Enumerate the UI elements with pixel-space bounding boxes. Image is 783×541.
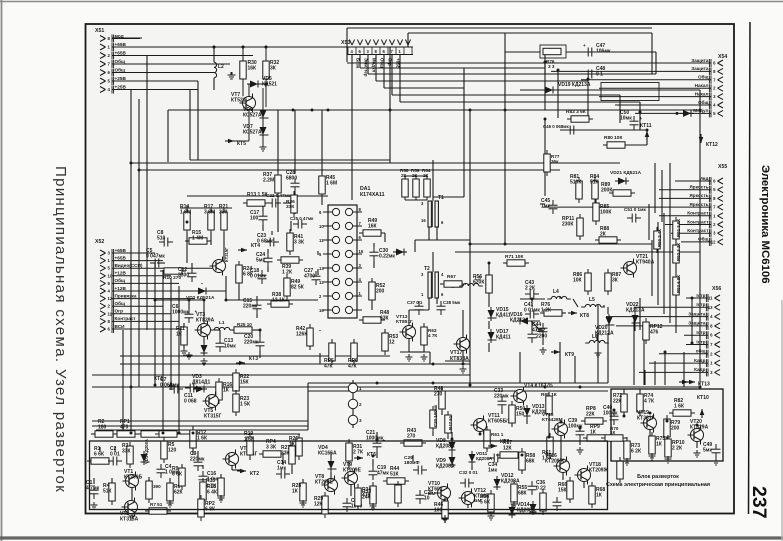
svg-text:Х55: Х55 xyxy=(718,164,727,170)
svg-text:82 5К: 82 5К xyxy=(291,285,305,291)
svg-text:КТ11: КТ11 xyxy=(640,123,652,129)
svg-text:Общ: Общ xyxy=(115,300,126,306)
svg-text:1К: 1К xyxy=(656,442,663,448)
svg-text:Защита: Защита xyxy=(691,66,709,71)
svg-text:220мк: 220мк xyxy=(244,340,259,346)
svg-text:КТ361Г: КТ361Г xyxy=(637,416,655,422)
svg-text:270: 270 xyxy=(407,434,416,440)
svg-text:4700: 4700 xyxy=(304,274,315,280)
svg-text:1К: 1К xyxy=(292,489,299,495)
svg-text:1 6М: 1 6М xyxy=(326,181,337,187)
svg-text:КТ209Б: КТ209Б xyxy=(124,475,143,481)
svg-text:200: 200 xyxy=(671,426,680,432)
svg-text:10К: 10К xyxy=(573,278,583,284)
svg-text:Блок разверток: Блок разверток xyxy=(637,474,679,480)
svg-text:6800: 6800 xyxy=(286,176,297,182)
svg-text:15К: 15К xyxy=(558,488,568,494)
svg-text:33К: 33К xyxy=(122,449,132,455)
svg-text:5мк: 5мк xyxy=(703,448,712,454)
svg-text:R92 3 3К: R92 3 3К xyxy=(676,243,681,261)
svg-text:1мк: 1мк xyxy=(541,204,550,210)
svg-text:22К: 22К xyxy=(586,412,596,418)
svg-text:15К: 15К xyxy=(240,380,250,386)
svg-text:КД208А: КД208А xyxy=(501,479,520,485)
svg-text:VD1 КД208А: VD1 КД208А xyxy=(144,439,149,464)
svg-text:КТ5: КТ5 xyxy=(237,141,246,147)
svg-text:150: 150 xyxy=(516,412,525,418)
svg-text:L1: L1 xyxy=(219,320,225,326)
svg-text:5мк: 5мк xyxy=(256,258,265,264)
svg-text:R67: R67 xyxy=(447,274,456,280)
svg-text:3 6М: 3 6М xyxy=(204,210,215,216)
svg-text:Т1: Т1 xyxy=(438,195,444,201)
svg-text:3: 3 xyxy=(359,418,362,423)
svg-text:Инд: Инд xyxy=(699,176,708,181)
svg-text:КТ209Е: КТ209Е xyxy=(315,480,334,486)
svg-text:R80 10К: R80 10К xyxy=(604,135,622,141)
svg-text:КД411: КД411 xyxy=(496,335,511,341)
svg-text:47мк: 47мк xyxy=(377,471,389,477)
svg-text:+12В: +12В xyxy=(115,286,127,291)
svg-text:12К: 12К xyxy=(503,446,513,452)
svg-text:1К: 1К xyxy=(596,493,603,499)
svg-text:ВСИ: ВСИ xyxy=(115,324,126,329)
svg-text:220мк: 220мк xyxy=(190,457,205,463)
svg-text:Общ: Общ xyxy=(115,66,126,72)
svg-text:+65В: +65В xyxy=(115,255,127,260)
svg-text:КД411: КД411 xyxy=(496,313,511,319)
svg-text:200К: 200К xyxy=(601,188,613,194)
svg-text:33К: 33К xyxy=(219,210,229,216)
svg-text:С38 5мк: С38 5мк xyxy=(443,300,461,305)
svg-text:6 6К: 6 6К xyxy=(172,472,183,478)
svg-text:С20 100мк: С20 100мк xyxy=(433,404,438,427)
svg-text:+65В: +65В xyxy=(115,248,127,253)
svg-text:КД208А: КД208А xyxy=(436,444,455,450)
svg-text:12: 12 xyxy=(711,239,716,244)
svg-text:С32 0 01: С32 0 01 xyxy=(459,470,478,475)
svg-text:22К: 22К xyxy=(613,399,623,405)
svg-text:47К: 47К xyxy=(324,364,334,370)
svg-text:12 1К: 12 1К xyxy=(272,298,286,304)
svg-text:R25 10: R25 10 xyxy=(237,322,252,327)
svg-text:КТ829А: КТ829А xyxy=(690,425,709,431)
svg-text:КД213А: КД213А xyxy=(626,308,645,314)
svg-text:3 3К: 3 3К xyxy=(294,240,305,246)
svg-text:0.22мк: 0.22мк xyxy=(379,254,395,260)
svg-text:Iстр: Iстр xyxy=(696,339,705,344)
svg-text:Х53: Х53 xyxy=(341,40,350,46)
svg-text:2.2М: 2.2М xyxy=(263,178,274,184)
svg-text:33К: 33К xyxy=(281,451,291,457)
svg-text:+25В: +25В xyxy=(115,84,127,89)
svg-text:5 6К: 5 6К xyxy=(480,500,491,506)
svg-text:100: 100 xyxy=(250,216,259,222)
svg-text:13: 13 xyxy=(708,305,713,310)
svg-text:+65В: +65В xyxy=(115,42,127,47)
svg-text:180мФ: 180мФ xyxy=(404,460,420,466)
svg-text:68К: 68К xyxy=(526,459,536,465)
svg-text:+65В: +65В xyxy=(115,50,127,55)
svg-text:Накал: Накал xyxy=(695,91,709,96)
svg-text:Х56: Х56 xyxy=(712,286,721,292)
svg-text:390: 390 xyxy=(153,484,161,489)
svg-text:33К: 33К xyxy=(286,204,294,210)
svg-text:16К: 16К xyxy=(368,224,378,230)
svg-text:3 3К: 3 3К xyxy=(266,445,277,451)
svg-text:Защита: Защита xyxy=(688,311,706,316)
svg-text:КТ3: КТ3 xyxy=(249,356,258,362)
svg-text:100К: 100К xyxy=(600,210,612,216)
svg-text:100мк: 100мк xyxy=(603,411,618,417)
svg-text:Яркость: Яркость xyxy=(689,193,708,198)
svg-text:R71 10К: R71 10К xyxy=(505,254,523,260)
svg-text:6 2К: 6 2К xyxy=(631,449,642,455)
svg-text:11: 11 xyxy=(708,296,713,301)
svg-text:R61 1: R61 1 xyxy=(491,432,504,437)
svg-text:КТ209Ж: КТ209Ж xyxy=(589,468,609,474)
svg-text:0 1: 0 1 xyxy=(596,72,603,78)
svg-text:220мк: 220мк xyxy=(243,304,258,310)
svg-text:1 6М: 1 6М xyxy=(180,210,191,216)
svg-text:VD21 КД521А: VD21 КД521А xyxy=(610,170,642,176)
svg-text:Х52: Х52 xyxy=(95,239,104,245)
svg-text:3300: 3300 xyxy=(178,273,189,279)
svg-text:68К: 68К xyxy=(518,491,528,497)
svg-text:1 4М: 1 4М xyxy=(192,236,203,242)
svg-text:12К: 12К xyxy=(314,502,324,508)
svg-text:КТ315А: КТ315А xyxy=(120,517,139,523)
svg-text:10мк: 10мк xyxy=(224,344,236,350)
svg-text:Электроника МС6106: Электроника МС6106 xyxy=(759,165,771,284)
svg-text:1000мк: 1000мк xyxy=(172,310,190,316)
svg-text:10мк: 10мк xyxy=(620,116,632,122)
svg-text:Огр: Огр xyxy=(115,309,124,314)
svg-text:С37 0 1: С37 0 1 xyxy=(407,300,423,305)
svg-text:51К: 51К xyxy=(390,472,400,478)
svg-text:180: 180 xyxy=(98,425,107,431)
svg-text:2 7К: 2 7К xyxy=(353,450,364,456)
svg-text:Т2: Т2 xyxy=(424,266,430,272)
svg-text:Яркость: Яркость xyxy=(689,202,708,207)
svg-text:L2: L2 xyxy=(218,64,224,70)
svg-text:Д814Д1: Д814Д1 xyxy=(192,380,210,386)
svg-text:120: 120 xyxy=(168,448,177,454)
svg-text:КД212А: КД212А xyxy=(510,318,529,324)
svg-text:237: 237 xyxy=(748,486,770,519)
svg-text:Контраст: Контраст xyxy=(687,211,709,216)
svg-text:0 22: 0 22 xyxy=(536,486,546,492)
svg-text:С46 0 068мк: С46 0 068мк xyxy=(543,124,570,129)
svg-text:2200: 2200 xyxy=(536,334,547,340)
svg-text:КС527А: КС527А xyxy=(243,113,262,119)
svg-text:1 6К: 1 6К xyxy=(244,437,255,443)
svg-text:КТ209Е: КТ209Е xyxy=(343,468,362,474)
svg-text:L5: L5 xyxy=(589,297,595,303)
svg-text:0 047мк: 0 047мк xyxy=(146,254,165,260)
svg-text:+: + xyxy=(583,43,586,48)
svg-text:1К: 1К xyxy=(289,442,296,448)
svg-text:КД208А: КД208А xyxy=(436,464,455,470)
svg-text:3К: 3К xyxy=(612,278,619,284)
svg-text:24К: 24К xyxy=(362,495,372,501)
svg-text:2 2К: 2 2К xyxy=(672,446,683,452)
svg-text:0 01мк: 0 01мк xyxy=(524,308,540,314)
svg-text:R93 6 8К: R93 6 8К xyxy=(676,275,681,293)
svg-text:Контраст: Контраст xyxy=(115,316,137,321)
svg-text:КТ6: КТ6 xyxy=(367,452,376,458)
svg-text:11: 11 xyxy=(319,238,324,243)
svg-text:КТ1: КТ1 xyxy=(154,376,163,382)
svg-text:R7 51: R7 51 xyxy=(150,502,163,507)
svg-text:Защита: Защита xyxy=(691,58,709,63)
svg-text:КТ10: КТ10 xyxy=(697,395,709,401)
svg-text:510: 510 xyxy=(157,236,166,242)
svg-text:16К: 16К xyxy=(248,66,258,72)
svg-text:КТ209Ж: КТ209Ж xyxy=(545,459,565,465)
svg-text:3 3: 3 3 xyxy=(548,64,555,69)
svg-text:КТ9: КТ9 xyxy=(565,352,574,358)
svg-text:63К: 63К xyxy=(380,316,390,322)
svg-text:Iстр: Iстр xyxy=(696,293,705,298)
svg-text:10: 10 xyxy=(319,224,324,229)
svg-text:VD19 КД213А: VD19 КД213А xyxy=(558,82,591,88)
svg-text:6 6К: 6 6К xyxy=(94,452,105,458)
svg-text:VT4 КТ637Б: VT4 КТ637Б xyxy=(524,383,553,389)
svg-text:КС527А: КС527А xyxy=(243,130,262,136)
svg-text:1К: 1К xyxy=(176,332,183,338)
svg-text:1 6К: 1 6К xyxy=(674,404,685,410)
svg-text:Iстр: Iстр xyxy=(696,302,705,307)
svg-text:+12В: +12В xyxy=(115,271,127,276)
svg-text:КТ315Г: КТ315Г xyxy=(224,247,229,262)
svg-text:230К: 230К xyxy=(562,222,574,228)
svg-text:КТ12: КТ12 xyxy=(706,142,718,148)
svg-text:2 2К: 2 2К xyxy=(525,286,536,292)
svg-text:L6: L6 xyxy=(592,334,598,340)
svg-text:Общ: Общ xyxy=(698,74,709,80)
svg-text:36к: 36к xyxy=(551,159,559,164)
svg-text:КТ605Б/1: КТ605Б/1 xyxy=(488,419,511,425)
svg-text:КТ521: КТ521 xyxy=(231,98,246,104)
svg-text:620К: 620К xyxy=(473,280,485,286)
svg-text:1мк: 1мк xyxy=(488,468,497,474)
svg-text:0 068: 0 068 xyxy=(184,399,197,405)
svg-text:КТ851Г: КТ851Г xyxy=(396,319,413,325)
svg-text:510К: 510К xyxy=(570,180,582,186)
svg-text:КТ315Г: КТ315Г xyxy=(204,414,222,420)
svg-text:КД521: КД521 xyxy=(262,82,277,88)
svg-text:6 4К: 6 4К xyxy=(207,490,218,496)
svg-text:13: 13 xyxy=(319,266,324,271)
svg-text:0 01: 0 01 xyxy=(110,452,120,458)
svg-text:К174ХА11: К174ХА11 xyxy=(360,192,385,198)
svg-text:1: 1 xyxy=(359,386,362,391)
svg-text:КТ940А: КТ940А xyxy=(636,260,655,266)
svg-text:С25 0 47мк: С25 0 47мк xyxy=(290,216,314,221)
svg-text:476: 476 xyxy=(650,330,659,336)
svg-text:4 7К: 4 7К xyxy=(428,333,437,338)
svg-text:1мк: 1мк xyxy=(277,466,286,472)
svg-text:C22 0.47мк: C22 0.47мк xyxy=(266,193,291,198)
svg-text:КТ829А: КТ829А xyxy=(196,318,215,324)
svg-text:51К: 51К xyxy=(590,180,600,186)
svg-text:R91 3 0К: R91 3 0К xyxy=(676,219,681,237)
svg-text:+25В: +25В xyxy=(115,76,127,81)
svg-text:2: 2 xyxy=(359,402,362,407)
svg-text:R83 3 6К: R83 3 6К xyxy=(566,109,586,115)
svg-text:16: 16 xyxy=(421,218,426,223)
svg-text:КС166А: КС166А xyxy=(318,451,337,457)
svg-text:200: 200 xyxy=(376,289,385,295)
svg-text:Х54: Х54 xyxy=(718,54,727,60)
svg-text:4 7мк: 4 7мк xyxy=(86,486,100,492)
svg-text:R65 1К: R65 1К xyxy=(541,392,557,398)
svg-text:R90 2 4К: R90 2 4К xyxy=(657,229,662,247)
svg-text:106мк: 106мк xyxy=(596,49,611,55)
svg-text:КТ838А: КТ838А xyxy=(450,356,469,362)
svg-text:1К: 1К xyxy=(590,430,597,436)
svg-text:Схема электрическая принципиал: Схема электрическая принципиальная xyxy=(606,482,710,488)
svg-text:Принципиальная схема. Узел раз: Принципиальная схема. Узел разверток xyxy=(52,166,69,493)
svg-text:126К: 126К xyxy=(296,332,308,338)
svg-text:1 5К: 1 5К xyxy=(240,402,251,408)
svg-text:10: 10 xyxy=(424,496,430,502)
svg-text:КТ4: КТ4 xyxy=(251,243,260,249)
svg-text:общ: общ xyxy=(696,348,706,354)
svg-text:15: 15 xyxy=(359,249,364,254)
svg-text:Х51: Х51 xyxy=(95,28,104,34)
svg-text:Защита: Защита xyxy=(688,321,706,326)
svg-text:R47 51: R47 51 xyxy=(448,415,453,430)
svg-text:+: + xyxy=(640,116,643,121)
svg-text:Контраст: Контраст xyxy=(687,219,709,224)
svg-text:12: 12 xyxy=(389,340,395,346)
svg-text:1 2К: 1 2К xyxy=(541,308,552,314)
svg-text:16: 16 xyxy=(319,308,324,313)
svg-text:47К: 47К xyxy=(348,364,358,370)
svg-text:L4: L4 xyxy=(553,289,559,295)
svg-text:100: 100 xyxy=(434,508,443,514)
svg-text:470: 470 xyxy=(120,425,129,431)
svg-text:Общ: Общ xyxy=(115,58,126,64)
svg-text:Общ: Общ xyxy=(115,277,126,283)
svg-text:Контраст: Контраст xyxy=(687,228,709,233)
svg-text:КТ2: КТ2 xyxy=(250,471,259,477)
svg-text:270: 270 xyxy=(434,392,443,398)
svg-text:С51 0 1мк: С51 0 1мк xyxy=(624,207,646,212)
svg-text:Яркость: Яркость xyxy=(689,185,708,190)
svg-text:47мк: 47мк xyxy=(532,328,544,334)
svg-text:0 01мк: 0 01мк xyxy=(250,274,266,280)
svg-text:4 7К: 4 7К xyxy=(206,484,217,490)
svg-text:12: 12 xyxy=(319,280,324,285)
svg-text:Iстр: Iстр xyxy=(696,330,705,335)
svg-text:Привязка: Привязка xyxy=(115,293,137,298)
svg-text:51К: 51К xyxy=(103,489,113,495)
svg-text:1К: 1К xyxy=(610,430,616,435)
svg-text:1К: 1К xyxy=(223,388,230,394)
svg-text:Накал: Накал xyxy=(695,83,709,88)
svg-text:220мк: 220мк xyxy=(494,394,509,400)
svg-text:4 7К: 4 7К xyxy=(644,399,655,405)
svg-text:62К: 62К xyxy=(174,490,184,496)
svg-text:3К: 3К xyxy=(270,66,277,72)
svg-text:КТ8: КТ8 xyxy=(580,313,589,319)
svg-text:2К: 2К xyxy=(600,232,607,238)
